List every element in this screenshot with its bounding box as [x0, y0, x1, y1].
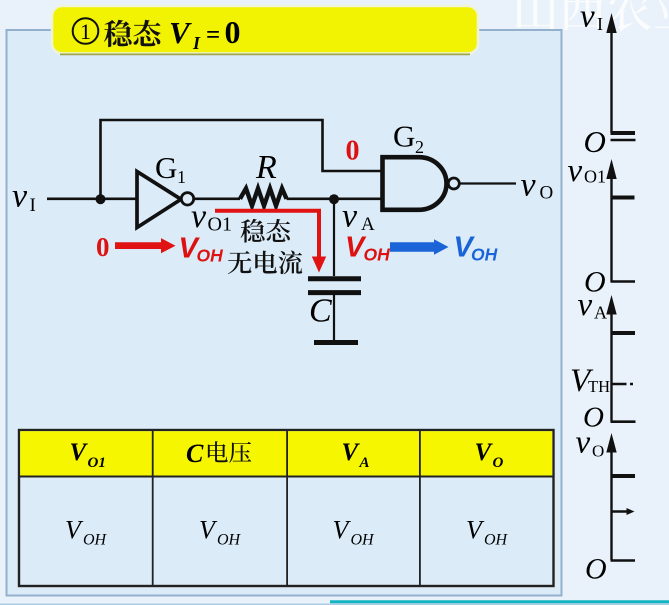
node A junction — [329, 194, 339, 204]
svg-text:G: G — [155, 150, 177, 185]
G1 output bubble — [181, 193, 193, 205]
svg-text:0: 0 — [96, 232, 110, 262]
svg-text:O: O — [584, 124, 606, 159]
inverter G1 — [137, 172, 181, 228]
V_TH dash-dot level — [612, 383, 633, 386]
svg-text:OH: OH — [83, 532, 108, 549]
svg-text:TH: TH — [588, 377, 610, 396]
svg-text:OH: OH — [197, 246, 224, 266]
svg-text:v: v — [342, 198, 358, 235]
svg-text:C: C — [186, 439, 204, 468]
svg-text:O1: O1 — [208, 214, 232, 236]
svg-text:OH: OH — [471, 245, 498, 265]
svg-text:I: I — [30, 195, 36, 216]
red arrowhead to capacitor — [312, 257, 326, 273]
blue label VOH at output — [454, 232, 498, 265]
capacitor C bottom plate — [308, 290, 361, 295]
wire: G2 output to v_O — [461, 182, 517, 184]
table header V_O1 — [70, 439, 106, 471]
title text 稳态 — [104, 20, 161, 47]
svg-text:O: O — [585, 553, 607, 586]
svg-text:=: = — [206, 22, 220, 49]
svg-text:O: O — [493, 455, 504, 471]
NAND gate G2 — [383, 157, 447, 210]
resistor R — [240, 188, 287, 205]
label v_A (node A) — [342, 198, 375, 236]
svg-text:V: V — [169, 15, 192, 50]
wire: capacitor to ground — [333, 295, 335, 340]
title box — [52, 6, 478, 54]
v_O time arrow — [611, 508, 635, 515]
svg-text:1: 1 — [80, 19, 91, 44]
svg-text:OH: OH — [217, 532, 242, 549]
v_O waveform at VOH level — [611, 474, 636, 478]
v_O1 axis origin — [584, 266, 635, 299]
G2 output bubble — [448, 178, 459, 189]
red label VOH at node A — [345, 232, 390, 265]
blue block arrow — [390, 239, 449, 255]
title text V_I = 0 — [169, 14, 241, 53]
svg-text:V: V — [70, 439, 89, 466]
table cell V_OH (C column) — [199, 516, 242, 549]
svg-text:I: I — [597, 14, 603, 34]
title circled 1 — [73, 18, 99, 44]
svg-text:O: O — [592, 442, 604, 461]
svg-text:A: A — [359, 455, 370, 471]
main panel — [7, 30, 562, 596]
V_TH threshold label — [570, 363, 610, 399]
svg-text:OH: OH — [364, 245, 391, 265]
wire: input v_I to G1 — [47, 198, 137, 201]
svg-text:0: 0 — [346, 136, 360, 167]
teal bottom rule — [330, 600, 669, 603]
label v_O1 (G1 output) — [191, 198, 232, 236]
svg-text:G: G — [393, 119, 415, 154]
svg-text:OH: OH — [484, 532, 509, 549]
svg-text:v: v — [580, 0, 595, 35]
svg-text:A: A — [594, 303, 607, 323]
svg-text:C: C — [309, 293, 332, 330]
svg-text:1: 1 — [177, 167, 186, 187]
watermark 山西农业大学 — [515, 0, 669, 31]
ground bar — [314, 340, 358, 345]
label v_I (input) — [12, 178, 36, 217]
table — [19, 430, 554, 586]
v_O axis origin — [585, 553, 635, 586]
svg-text:v: v — [568, 153, 583, 189]
svg-text:O: O — [540, 183, 554, 204]
table cell V_OH (v_O column) — [466, 516, 509, 549]
waveform axis v_A — [578, 287, 617, 422]
waveform axis v_O1 — [568, 153, 617, 282]
table header V_A — [342, 439, 370, 471]
waveform axis v_O — [576, 425, 617, 561]
svg-text:V: V — [475, 439, 494, 466]
table cell V_OH (v_A column) — [333, 516, 376, 549]
red label VOH at G1 output — [179, 233, 224, 266]
v_I axis origin — [584, 124, 636, 159]
v_O1 waveform at VOH level — [611, 196, 635, 200]
annotation 稳态 (steady state) — [241, 219, 291, 243]
svg-text:v: v — [191, 198, 207, 235]
v_I waveform at 0 level — [611, 131, 636, 135]
v_A axis origin — [583, 402, 636, 434]
waveform axis v_I — [580, 0, 617, 133]
svg-text:0: 0 — [225, 14, 241, 50]
svg-text:OH: OH — [351, 532, 376, 549]
svg-text:v: v — [521, 167, 537, 204]
red block arrow (0 implies VOH) — [115, 238, 176, 253]
v_A waveform at VOH level — [611, 331, 636, 335]
wire: G1 bubble to resistor — [194, 198, 240, 201]
svg-text:V: V — [342, 439, 361, 466]
red steady-state current path (no current) — [215, 211, 319, 259]
wire: feedback from node to G2 upper input — [101, 120, 383, 199]
svg-text:O1: O1 — [88, 455, 106, 471]
table header V_O — [475, 439, 504, 471]
svg-text:v: v — [578, 287, 593, 323]
svg-text:v: v — [576, 425, 591, 461]
label G1 — [155, 150, 186, 187]
svg-text:R: R — [255, 149, 277, 186]
wire: resistor to G2 lower input — [287, 198, 383, 201]
label v_O (output) — [521, 167, 554, 204]
svg-text:O1: O1 — [584, 167, 606, 187]
svg-text:v: v — [12, 178, 28, 215]
svg-text:2: 2 — [415, 137, 424, 157]
capacitor C top plate — [308, 276, 361, 281]
table cell V_OH (v_O1 column) — [65, 516, 108, 549]
annotation 无电流 (no current) — [228, 250, 302, 274]
wire: node A down to capacitor — [333, 199, 335, 276]
label G2 — [393, 119, 424, 158]
light bottom rule — [0, 603, 669, 605]
node junction at v_I — [96, 194, 106, 204]
svg-text:I: I — [192, 33, 201, 53]
